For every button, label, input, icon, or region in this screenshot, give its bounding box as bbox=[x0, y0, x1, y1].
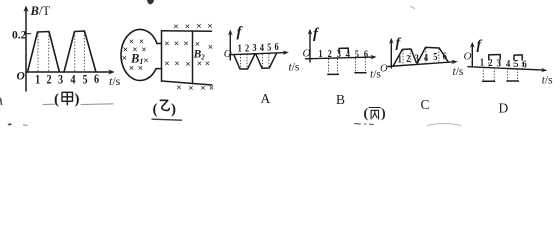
(YI) caption bbox=[153, 100, 177, 117]
svg-text:×: × bbox=[185, 22, 190, 32]
x tick labels 1-6 graph JIA bbox=[35, 72, 99, 87]
svg-text:×: × bbox=[209, 84, 214, 94]
svg-text:): ) bbox=[381, 107, 386, 122]
svg-text:×: × bbox=[195, 40, 200, 50]
svg-text:f: f bbox=[237, 25, 244, 41]
B2 field crosses below bottom rail bbox=[176, 84, 214, 95]
svg-text:5: 5 bbox=[82, 72, 87, 86]
svg-text:2: 2 bbox=[328, 48, 332, 60]
svg-text:2: 2 bbox=[46, 72, 51, 86]
svg-text:×: × bbox=[122, 54, 127, 64]
faint scan artifact dashes beside (JIA) bbox=[43, 103, 113, 106]
B1 field crosses inside circle bbox=[122, 38, 149, 74]
svg-text:×: × bbox=[197, 60, 202, 70]
faint speck top middle right bbox=[411, 7, 415, 9]
svg-text:5: 5 bbox=[433, 51, 437, 63]
dotted verticals C trap 2 bbox=[426, 48, 439, 63]
underline below (YI) bbox=[152, 119, 182, 120]
svg-text:A: A bbox=[261, 91, 271, 106]
svg-text:6: 6 bbox=[274, 41, 278, 53]
positive pulse 2-3 graph D bbox=[489, 55, 501, 60]
stray mark left edge bbox=[1, 99, 2, 105]
svg-text:6: 6 bbox=[94, 72, 99, 86]
svg-text:6: 6 bbox=[522, 59, 526, 71]
svg-text:1: 1 bbox=[238, 43, 242, 55]
trapezoid pulse 1 of B(t) bbox=[28, 32, 60, 73]
dash marks under (BING) bbox=[355, 123, 374, 126]
svg-text:2: 2 bbox=[406, 53, 410, 65]
svg-text:f: f bbox=[396, 36, 402, 51]
svg-text:×: × bbox=[200, 84, 205, 94]
dotted verticals trapezoid 2 bbox=[74, 33, 76, 72]
svg-text:×: × bbox=[141, 46, 146, 56]
svg-text:1: 1 bbox=[480, 57, 484, 69]
inverted trapezoid 1 graph A bbox=[234, 54, 255, 69]
svg-text:O: O bbox=[17, 71, 25, 83]
x-axis graph B bbox=[306, 55, 377, 60]
0.2 tick on y-axis bbox=[26, 33, 31, 35]
svg-text:3: 3 bbox=[415, 52, 419, 64]
svg-text:×: × bbox=[196, 22, 201, 32]
svg-text:×: × bbox=[205, 60, 210, 70]
trapezoid pulse 1 graph C bbox=[393, 49, 416, 66]
svg-text:4: 4 bbox=[260, 42, 264, 54]
svg-text:t/s: t/s bbox=[542, 75, 553, 87]
svg-text:B/T: B/T bbox=[30, 4, 51, 18]
x tick labels 1-6 graph A bbox=[238, 41, 279, 55]
svg-text:×: × bbox=[173, 23, 178, 33]
svg-text:O: O bbox=[464, 51, 472, 63]
conducting rod bbox=[192, 31, 194, 84]
negative pulse 1-2 graph D bbox=[483, 68, 495, 82]
rails: top rail bbox=[162, 30, 212, 33]
svg-text:×: × bbox=[174, 60, 179, 70]
svg-text:2: 2 bbox=[245, 42, 249, 54]
svg-text:3: 3 bbox=[58, 72, 63, 86]
(BING) caption bbox=[364, 107, 387, 122]
svg-text:×: × bbox=[164, 60, 169, 70]
svg-text:×: × bbox=[188, 84, 193, 94]
svg-text:×: × bbox=[143, 57, 148, 67]
svg-text:C: C bbox=[421, 97, 430, 112]
svg-text:5: 5 bbox=[267, 42, 271, 54]
svg-text:×: × bbox=[174, 40, 179, 50]
svg-text:×: × bbox=[185, 60, 190, 70]
stray ink blob top middle bbox=[147, 0, 154, 5]
dotted verticals C trap 1 bbox=[403, 50, 411, 66]
positive pulse 5-6 graph D bbox=[514, 55, 522, 60]
svg-text:t/s: t/s bbox=[453, 66, 464, 78]
svg-text:(: ( bbox=[153, 102, 158, 118]
y-axis graph C bbox=[389, 38, 394, 68]
svg-text:D: D bbox=[499, 101, 509, 116]
dotted verticals trapezoid 1 bbox=[37, 33, 39, 72]
svg-text:4: 4 bbox=[424, 52, 428, 64]
y-axis of graph JIA bbox=[23, 6, 28, 92]
wire to rectangle top bbox=[157, 43, 161, 45]
circular coil outline with gap on right bbox=[121, 29, 157, 80]
svg-text:t/s: t/s bbox=[109, 74, 121, 88]
svg-text:6: 6 bbox=[443, 50, 447, 62]
svg-text:4: 4 bbox=[70, 72, 75, 86]
svg-text:×: × bbox=[208, 43, 213, 53]
svg-text:B: B bbox=[336, 92, 345, 107]
x-axis of graph JIA bbox=[26, 69, 115, 74]
x tick labels 1-6 graph C bbox=[398, 50, 447, 65]
negative pulse 2-3 graph B bbox=[328, 59, 339, 75]
x-axis graph D bbox=[468, 67, 547, 73]
stray ink smudge bottom left bbox=[8, 123, 13, 125]
B2 field crosses above top rail bbox=[173, 22, 212, 33]
negative pulse 5-6 graph B bbox=[355, 58, 366, 72]
wire to rectangle bottom bbox=[156, 68, 161, 70]
svg-text:): ) bbox=[75, 92, 80, 108]
svg-text:f: f bbox=[477, 38, 483, 53]
svg-text:1: 1 bbox=[318, 48, 322, 60]
B2 field crosses between rails row 1 bbox=[164, 40, 213, 53]
svg-text:(: ( bbox=[364, 107, 369, 122]
svg-text:6: 6 bbox=[364, 49, 368, 61]
y-axis graph A bbox=[228, 30, 233, 61]
svg-text:×: × bbox=[164, 40, 169, 50]
dotted verticals A trap 1 bbox=[241, 54, 247, 68]
svg-text:5: 5 bbox=[514, 58, 518, 70]
rails: left connecting edge bbox=[161, 31, 163, 81]
svg-text:×: × bbox=[176, 84, 181, 94]
dotted verticals A trap 2 bbox=[262, 54, 269, 68]
y-axis graph D bbox=[470, 42, 475, 67]
positive pulse 3-4 graph B bbox=[339, 48, 348, 52]
svg-text:f: f bbox=[313, 26, 320, 42]
svg-text:O: O bbox=[380, 64, 388, 75]
x-axis graph A bbox=[230, 50, 289, 55]
svg-text:3: 3 bbox=[252, 42, 256, 54]
svg-text:0.2: 0.2 bbox=[12, 30, 27, 42]
svg-text:×: × bbox=[129, 64, 134, 74]
rails: bottom rail bbox=[162, 81, 213, 85]
svg-text:): ) bbox=[171, 102, 176, 118]
svg-text:4: 4 bbox=[506, 58, 510, 70]
svg-text:1: 1 bbox=[398, 54, 402, 66]
y-axis graph B bbox=[308, 29, 313, 62]
inverted trapezoid 2 graph A bbox=[256, 54, 276, 69]
svg-text:1: 1 bbox=[35, 73, 40, 87]
x tick labels 1-6 graph B bbox=[318, 48, 368, 61]
svg-text:×: × bbox=[183, 40, 188, 50]
x-axis graph C bbox=[388, 60, 458, 67]
x tick labels 1-6 graph D bbox=[480, 57, 527, 71]
faint dot bottom left bbox=[24, 124, 28, 127]
negative pulse 4-5 graph D bbox=[507, 69, 518, 81]
trapezoid pulse 2 graph C bbox=[417, 47, 448, 64]
svg-text:×: × bbox=[207, 22, 212, 32]
svg-text:(: ( bbox=[54, 92, 59, 108]
faint smudge under C bbox=[427, 124, 461, 126]
(JIA) caption bbox=[54, 92, 80, 108]
svg-text:t/s: t/s bbox=[289, 62, 300, 74]
B2 field crosses between rails row 2 bbox=[164, 60, 210, 71]
trapezoid pulse 2 of B(t) bbox=[64, 31, 96, 72]
